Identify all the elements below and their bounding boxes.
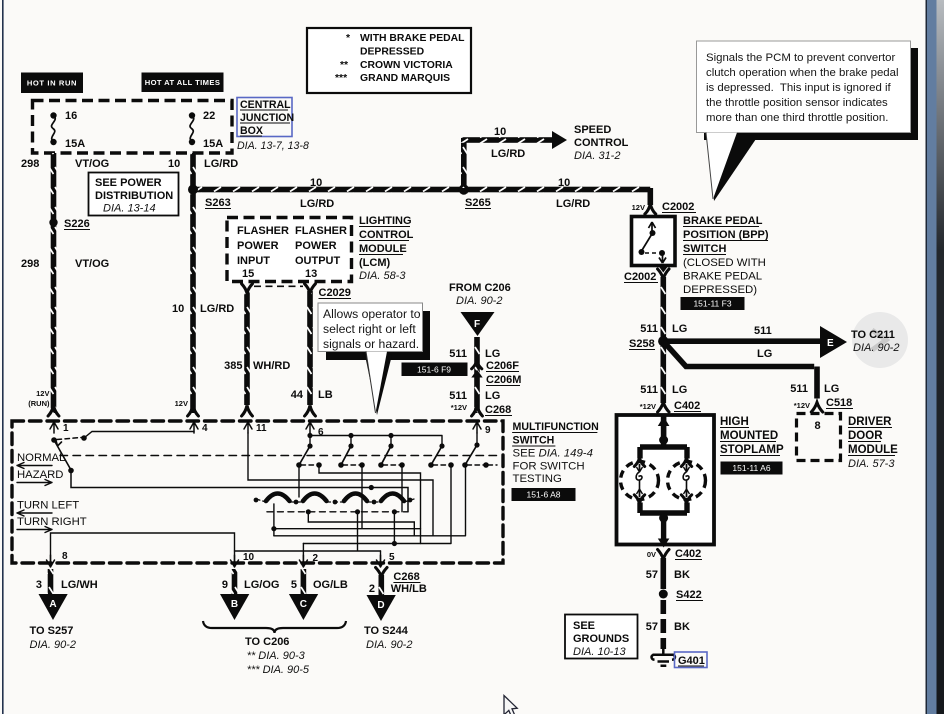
svg-text:SPEED: SPEED xyxy=(574,124,611,136)
svg-text:MULTIFUNCTION: MULTIFUNCTION xyxy=(513,421,599,433)
svg-text:10: 10 xyxy=(243,552,255,563)
svg-text:BK: BK xyxy=(674,621,690,633)
svg-text:TURN RIGHT: TURN RIGHT xyxy=(17,516,87,528)
svg-text:5: 5 xyxy=(389,552,395,563)
svg-text:151-11 F3: 151-11 F3 xyxy=(693,299,731,309)
svg-text:DIA. 10-13: DIA. 10-13 xyxy=(573,646,626,658)
svg-text:DIA. 58-3: DIA. 58-3 xyxy=(359,270,406,282)
svg-text:S265: S265 xyxy=(465,197,491,209)
svg-text:SEE: SEE xyxy=(573,620,595,632)
svg-text:DIA. 31-2: DIA. 31-2 xyxy=(574,150,620,162)
svg-text:the throttle position sensor i: the throttle position sensor indicates xyxy=(706,97,888,109)
svg-text:is depressed. This input is i: is depressed. This input is ignored if xyxy=(706,82,892,94)
svg-text:4: 4 xyxy=(202,423,208,434)
svg-text:POWER: POWER xyxy=(237,240,279,252)
svg-text:151-11 A6: 151-11 A6 xyxy=(732,463,770,473)
svg-text:SWITCH: SWITCH xyxy=(683,243,726,255)
svg-text:5: 5 xyxy=(291,579,297,591)
svg-text:10: 10 xyxy=(172,303,184,315)
svg-text:8: 8 xyxy=(815,420,821,432)
svg-text:OG/LB: OG/LB xyxy=(313,579,348,591)
svg-text:LG: LG xyxy=(485,390,500,402)
svg-text:HIGH: HIGH xyxy=(720,416,749,428)
svg-text:LB: LB xyxy=(318,389,333,401)
svg-text:LG/RD: LG/RD xyxy=(300,198,334,210)
svg-text:S226: S226 xyxy=(64,218,90,230)
svg-text:LG: LG xyxy=(672,384,687,396)
svg-text:clutch operation when the brak: clutch operation when the brake pedal xyxy=(706,67,899,79)
svg-text:DIA. 90-2: DIA. 90-2 xyxy=(456,295,502,307)
svg-text:C2002: C2002 xyxy=(662,201,694,213)
svg-text:A: A xyxy=(49,599,56,610)
svg-text:CROWN VICTORIA: CROWN VICTORIA xyxy=(360,60,453,71)
svg-text:FLASHER: FLASHER xyxy=(295,225,347,237)
svg-text:13: 13 xyxy=(305,268,317,280)
svg-text:** DIA. 90-3: ** DIA. 90-3 xyxy=(247,650,306,662)
svg-text:C518: C518 xyxy=(826,397,852,409)
svg-text:BRAKE PEDAL: BRAKE PEDAL xyxy=(683,215,763,227)
svg-text:C206M: C206M xyxy=(486,374,521,386)
svg-text:**: ** xyxy=(340,60,349,71)
svg-text:57: 57 xyxy=(646,621,658,633)
svg-text:signals or hazard.: signals or hazard. xyxy=(323,337,419,351)
svg-text:DIA. 90-2: DIA. 90-2 xyxy=(30,639,76,651)
svg-text:(LCM): (LCM) xyxy=(359,257,390,269)
svg-text:LG/OG: LG/OG xyxy=(244,579,279,591)
svg-text:WITH BRAKE PEDAL: WITH BRAKE PEDAL xyxy=(360,33,465,44)
svg-text:HOT AT ALL TIMES: HOT AT ALL TIMES xyxy=(145,78,221,87)
svg-text:FOR SWITCH: FOR SWITCH xyxy=(513,461,585,473)
svg-text:C2002: C2002 xyxy=(624,271,656,283)
svg-text:BRAKE PEDAL: BRAKE PEDAL xyxy=(683,271,762,283)
svg-text:TESTING: TESTING xyxy=(513,473,563,485)
svg-text:OUTPUT: OUTPUT xyxy=(295,255,341,267)
svg-text:MODULE: MODULE xyxy=(848,444,898,456)
svg-text:TO C211: TO C211 xyxy=(851,329,895,341)
svg-text:DIA. 13-14: DIA. 13-14 xyxy=(103,203,156,215)
svg-text:385: 385 xyxy=(224,360,242,372)
svg-text:GROUNDS: GROUNDS xyxy=(573,633,629,645)
svg-text:DRIVER: DRIVER xyxy=(848,416,892,428)
svg-text:151-6 F9: 151-6 F9 xyxy=(417,365,451,375)
svg-text:B: B xyxy=(231,599,238,610)
svg-text:*12V: *12V xyxy=(794,401,810,410)
svg-text:6: 6 xyxy=(318,427,324,438)
svg-text:S263: S263 xyxy=(205,197,231,209)
svg-text:DIA. 90-2: DIA. 90-2 xyxy=(366,639,412,651)
svg-text:C402: C402 xyxy=(674,400,700,412)
svg-text:TURN LEFT: TURN LEFT xyxy=(17,500,79,512)
svg-text:TO S257: TO S257 xyxy=(30,625,74,637)
svg-text:MODULE: MODULE xyxy=(359,243,407,255)
svg-text:2: 2 xyxy=(313,553,319,564)
svg-text:DEPRESSED): DEPRESSED) xyxy=(683,284,757,296)
svg-text:511: 511 xyxy=(640,384,658,396)
svg-text:10: 10 xyxy=(494,126,506,138)
svg-text:D: D xyxy=(377,600,384,611)
svg-text:151-6 A8: 151-6 A8 xyxy=(526,490,560,500)
svg-text:more than one third throttle p: more than one third throttle position. xyxy=(706,112,888,124)
svg-text:LG/RD: LG/RD xyxy=(556,198,590,210)
svg-text:9: 9 xyxy=(222,579,228,591)
svg-text:57: 57 xyxy=(646,569,658,581)
svg-text:0V: 0V xyxy=(647,550,656,559)
svg-text:Signals the PCM to prevent con: Signals the PCM to prevent convertor xyxy=(706,52,896,64)
svg-text:511: 511 xyxy=(449,390,467,402)
svg-text:15A: 15A xyxy=(203,138,223,150)
svg-text:LG: LG xyxy=(672,323,687,335)
svg-text:WH/LB: WH/LB xyxy=(391,583,427,595)
svg-text:LG: LG xyxy=(757,348,772,360)
svg-text:DEPRESSED: DEPRESSED xyxy=(360,47,425,58)
svg-text:S258: S258 xyxy=(629,338,655,350)
svg-text:CENTRAL: CENTRAL xyxy=(240,99,291,111)
svg-text:WH/RD: WH/RD xyxy=(253,360,290,372)
svg-text:S422: S422 xyxy=(676,589,702,601)
svg-text:CONTROL: CONTROL xyxy=(574,137,629,149)
svg-text:12V: 12V xyxy=(175,399,188,408)
svg-text:MOUNTED: MOUNTED xyxy=(720,430,778,442)
svg-text:DISTRIBUTION: DISTRIBUTION xyxy=(95,190,173,202)
svg-text:INPUT: INPUT xyxy=(237,255,270,267)
svg-text:511: 511 xyxy=(449,348,467,360)
svg-text:11: 11 xyxy=(256,423,267,434)
svg-text:JUNCTION: JUNCTION xyxy=(240,112,294,124)
svg-text:10: 10 xyxy=(168,158,180,170)
svg-text:C206F: C206F xyxy=(486,360,519,372)
svg-text:HAZARD: HAZARD xyxy=(17,469,63,481)
svg-text:DOOR: DOOR xyxy=(848,430,883,442)
svg-text:9: 9 xyxy=(485,425,491,436)
svg-text:F: F xyxy=(474,319,480,330)
svg-text:***: *** xyxy=(335,73,348,84)
svg-text:C402: C402 xyxy=(675,548,701,560)
svg-text:POSITION (BPP): POSITION (BPP) xyxy=(683,229,769,241)
svg-text:2: 2 xyxy=(369,583,375,595)
svg-text:22: 22 xyxy=(203,110,215,122)
svg-text:LIGHTING: LIGHTING xyxy=(359,215,412,227)
svg-text:LG/WH: LG/WH xyxy=(61,579,98,591)
svg-text:DIA. 90-2: DIA. 90-2 xyxy=(853,342,899,354)
svg-text:*** DIA. 90-5: *** DIA. 90-5 xyxy=(247,664,310,676)
svg-text:G401: G401 xyxy=(678,655,705,667)
svg-text:HOT IN RUN: HOT IN RUN xyxy=(27,79,77,88)
svg-text:511: 511 xyxy=(640,323,658,335)
svg-text:LG/RD: LG/RD xyxy=(204,158,238,170)
svg-text:FROM C206: FROM C206 xyxy=(449,282,511,294)
svg-text:STOPLAMP: STOPLAMP xyxy=(720,444,784,456)
svg-text:DIA. 13-7, 13-8: DIA. 13-7, 13-8 xyxy=(237,140,309,152)
svg-text:LG/RD: LG/RD xyxy=(491,148,525,160)
svg-text:12V: 12V xyxy=(632,203,645,212)
svg-text:E: E xyxy=(827,338,834,349)
svg-text:(RUN): (RUN) xyxy=(28,399,50,408)
svg-text:C2029: C2029 xyxy=(319,287,351,299)
svg-text:44: 44 xyxy=(291,389,304,401)
svg-text:LG/RD: LG/RD xyxy=(200,303,234,315)
svg-text:298: 298 xyxy=(21,258,39,270)
svg-text:C268: C268 xyxy=(393,571,419,583)
svg-text:511: 511 xyxy=(790,383,808,395)
svg-text:VT/OG: VT/OG xyxy=(75,158,109,170)
svg-text:GRAND MARQUIS: GRAND MARQUIS xyxy=(360,73,450,84)
svg-text:Allows operator to: Allows operator to xyxy=(323,307,421,321)
svg-text:298: 298 xyxy=(21,158,39,170)
svg-text:C268: C268 xyxy=(485,404,511,416)
svg-text:SEE POWER: SEE POWER xyxy=(95,177,162,189)
svg-text:12V: 12V xyxy=(36,389,49,398)
svg-text:SWITCH: SWITCH xyxy=(513,435,555,447)
svg-text:LG: LG xyxy=(824,383,839,395)
svg-text:511: 511 xyxy=(754,325,772,337)
svg-text:C: C xyxy=(300,599,307,610)
svg-text:*12V: *12V xyxy=(640,402,656,411)
svg-text:1: 1 xyxy=(63,423,69,434)
svg-text:BOX: BOX xyxy=(240,125,263,137)
svg-text:POWER: POWER xyxy=(295,240,337,252)
svg-text:DIA. 57-3: DIA. 57-3 xyxy=(848,458,895,470)
svg-text:VT/OG: VT/OG xyxy=(75,258,109,270)
svg-text:8: 8 xyxy=(62,551,68,562)
svg-text:select right or left: select right or left xyxy=(323,322,416,336)
svg-text:(CLOSED WITH: (CLOSED WITH xyxy=(683,257,766,269)
svg-text:15A: 15A xyxy=(65,138,85,150)
svg-text:TO C206: TO C206 xyxy=(245,636,289,648)
svg-text:TO S244: TO S244 xyxy=(364,625,409,637)
svg-text:BK: BK xyxy=(674,569,690,581)
svg-text:*12V: *12V xyxy=(451,403,467,412)
svg-text:15: 15 xyxy=(242,268,254,280)
svg-text:16: 16 xyxy=(65,110,77,122)
svg-text:SEE DIA. 149-4: SEE DIA. 149-4 xyxy=(513,448,593,460)
svg-text:FLASHER: FLASHER xyxy=(237,225,289,237)
svg-text:CONTROL: CONTROL xyxy=(359,229,414,241)
svg-text:LG: LG xyxy=(485,348,500,360)
svg-text:3: 3 xyxy=(36,579,42,591)
